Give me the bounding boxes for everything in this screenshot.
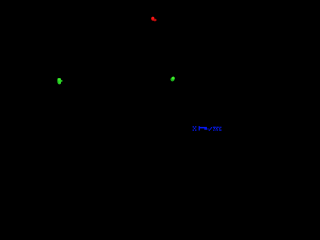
glyph X [193,126,194,127]
green LED right [170,77,174,82]
glyph Y [218,127,219,128]
glyph X2 [215,127,216,128]
script word [199,126,200,130]
slash [209,130,210,131]
green LED left [57,78,62,84]
glyph 7 [213,127,216,128]
blue watermark text bottom-right [193,126,222,131]
red LED glow [151,17,156,22]
